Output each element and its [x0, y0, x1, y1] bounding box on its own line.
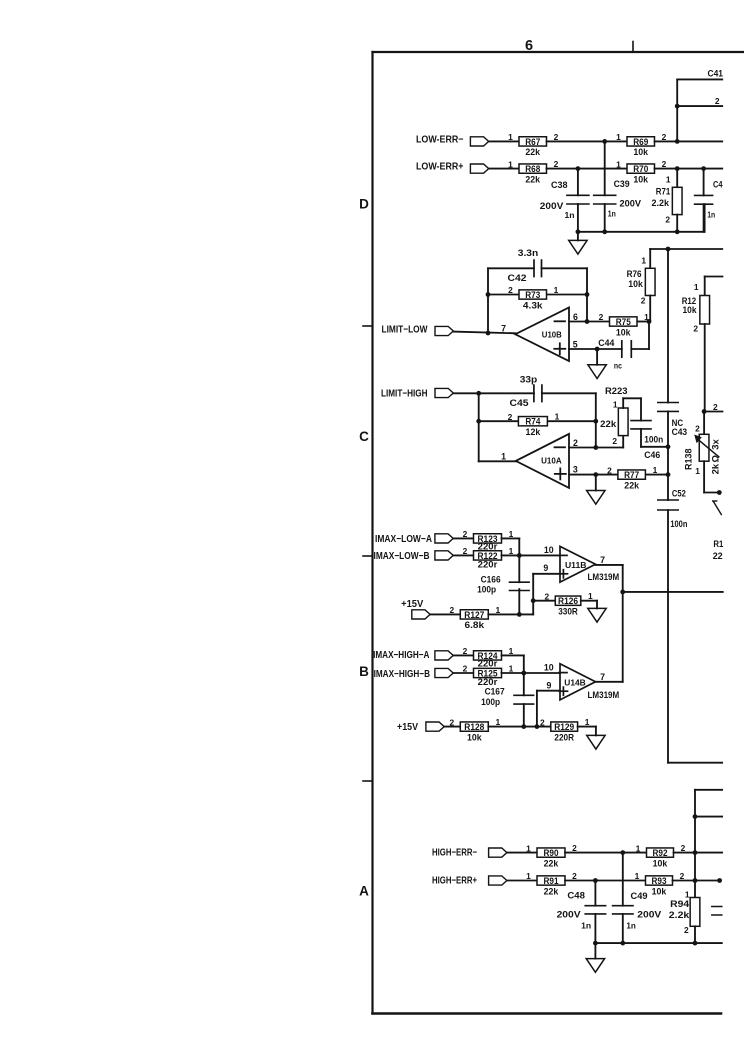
resistor R91 [526, 871, 577, 896]
wire pin2 row to R223 [569, 447, 623, 449]
capacitor C167 [481, 673, 533, 727]
resistor R129 [540, 717, 590, 742]
node IMAX-LOW-B [374, 551, 454, 562]
wire gnd stub pin3 [595, 475, 597, 491]
svg-text:IMAX−HIGH−B: IMAX−HIGH−B [374, 669, 430, 680]
wire HIGH-ERR+ to R91 [507, 880, 537, 882]
junction R75 R76 C44 [647, 319, 652, 324]
svg-text:220r: 220r [478, 658, 498, 669]
svg-text:LOW-ERR−: LOW-ERR− [416, 134, 464, 145]
svg-text:1: 1 [509, 646, 514, 656]
wire R129 to gnd [578, 727, 596, 736]
wire +15V to R127 [430, 613, 460, 615]
trimmer R138 [684, 402, 723, 495]
svg-text:2: 2 [449, 717, 454, 727]
wire pin10 row [502, 554, 561, 556]
junction R71 bottom [675, 229, 680, 234]
wire HIGH-ERR ground bus [595, 942, 721, 944]
wire pin5 row C44 [569, 322, 649, 350]
svg-text:R94: R94 [670, 899, 689, 909]
wire R90 to R92 [565, 852, 647, 854]
svg-text:10k: 10k [628, 279, 643, 289]
wire pin10 row U14B [502, 672, 561, 674]
wire IMAX-LOW-A to R123 [453, 537, 473, 539]
node LOW-ERR+ [416, 162, 489, 174]
svg-text:2: 2 [463, 646, 468, 656]
wire R67 to R69 [547, 140, 628, 142]
svg-text:2: 2 [572, 843, 577, 853]
wire right vert C45-R74-pin2 [595, 393, 597, 447]
wire ground bus below C38-C40 [578, 204, 705, 232]
svg-text:1: 1 [616, 132, 621, 142]
svg-text:9: 9 [543, 563, 548, 573]
svg-text:100p: 100p [477, 585, 496, 595]
resistor R75 [599, 312, 650, 337]
svg-text:6: 6 [573, 312, 578, 322]
ground below R129 [587, 735, 605, 749]
wire C41 net top right [677, 79, 722, 141]
wire R123 elbow to pin10 row [502, 538, 520, 555]
svg-text:1n: 1n [707, 209, 715, 219]
svg-text:LOW-ERR+: LOW-ERR+ [416, 162, 464, 173]
svg-text:22k: 22k [600, 419, 617, 429]
svg-text:22k: 22k [525, 146, 540, 157]
junction C40 top [701, 166, 706, 171]
resistor R122 [463, 546, 514, 570]
svg-text:C39: C39 [614, 179, 630, 189]
junction feedback left out [486, 331, 491, 336]
svg-text:R138: R138 [684, 448, 694, 470]
svg-text:A: A [359, 884, 369, 899]
svg-text:200V: 200V [540, 201, 564, 211]
node +15V upper [401, 599, 430, 619]
svg-text:U11B: U11B [565, 560, 587, 570]
svg-text:2: 2 [680, 871, 685, 881]
junction C39 top [602, 139, 607, 144]
svg-text:1: 1 [508, 159, 513, 169]
svg-text:220r: 220r [478, 559, 498, 570]
svg-text:100p: 100p [481, 697, 500, 707]
svg-text:1: 1 [616, 159, 621, 169]
svg-text:1: 1 [526, 843, 531, 853]
wire pin6 row to R75 [569, 321, 649, 323]
op-amp U10A [516, 434, 569, 488]
svg-text:1: 1 [554, 285, 559, 295]
svg-text:200V: 200V [620, 199, 642, 209]
svg-text:2: 2 [540, 717, 545, 727]
svg-text:10: 10 [544, 545, 554, 555]
svg-text:IMAX−LOW−A: IMAX−LOW−A [375, 534, 432, 545]
svg-text:2: 2 [449, 605, 454, 615]
svg-text:1: 1 [641, 256, 646, 266]
zone tick C/B [363, 555, 373, 557]
svg-text:1: 1 [509, 529, 514, 539]
wire R127 to pin9 vert [488, 574, 560, 615]
wire left vert U10A [478, 393, 480, 461]
svg-text:200V: 200V [637, 909, 661, 919]
resistor R90 [526, 843, 577, 868]
node IMAX-LOW-A [375, 534, 453, 545]
svg-text:200V: 200V [557, 909, 581, 919]
svg-text:6: 6 [525, 38, 533, 54]
ground below C48 [586, 959, 604, 973]
svg-text:1: 1 [501, 452, 506, 462]
capacitor C43 [658, 403, 687, 438]
svg-text:2: 2 [544, 591, 549, 601]
ground below C44 [588, 365, 606, 379]
wire HIGH-ERR- to R90 [507, 852, 537, 854]
svg-text:22k: 22k [624, 479, 639, 490]
resistor R70 [616, 159, 667, 184]
svg-text:C43: C43 [672, 427, 688, 437]
svg-text:2: 2 [713, 402, 718, 412]
svg-text:100n: 100n [670, 519, 687, 529]
resistor R77 [607, 465, 658, 490]
svg-text:33p: 33p [520, 375, 538, 385]
wire LIMIT-LOW to U10B output [453, 332, 515, 334]
junction C48 bottom [593, 941, 598, 946]
junction R69 row / C41 branch [675, 139, 680, 144]
capacitor C38 [540, 169, 589, 232]
svg-text:LIMIT−LOW: LIMIT−LOW [382, 324, 428, 335]
svg-text:C48: C48 [567, 891, 585, 901]
svg-text:C45: C45 [510, 398, 529, 408]
wire pin9 vert U14B [537, 691, 560, 727]
resistor R124 [463, 646, 514, 669]
svg-text:2: 2 [695, 424, 700, 434]
wire R128 to R129 row [488, 726, 551, 728]
svg-text:C52: C52 [672, 489, 686, 499]
junction C167 bottom [521, 724, 526, 729]
junction gnd pin5 [595, 347, 600, 352]
junction pin9 vert U14B [535, 724, 540, 729]
svg-text:2: 2 [681, 843, 686, 853]
svg-text:22: 22 [713, 551, 723, 561]
zone tick D/C [363, 325, 373, 327]
svg-text:HIGH−ERR−: HIGH−ERR− [432, 847, 477, 858]
junction C41 branch [675, 104, 680, 109]
comparator U11B [559, 546, 596, 582]
svg-text:2: 2 [599, 312, 604, 322]
svg-text:2: 2 [665, 215, 670, 225]
svg-text:10k: 10k [653, 857, 668, 868]
svg-text:2.2k: 2.2k [652, 198, 670, 208]
svg-text:1: 1 [653, 465, 658, 475]
junction pin2 vert [593, 445, 598, 450]
svg-text:HIGH−ERR+: HIGH−ERR+ [432, 876, 477, 887]
svg-text:2: 2 [662, 159, 667, 169]
svg-text:nc: nc [614, 361, 622, 371]
svg-text:1n: 1n [565, 210, 575, 220]
svg-text:1: 1 [666, 175, 671, 185]
capacitor C46 [631, 398, 668, 460]
op-amp U10B [515, 308, 569, 362]
svg-text:C4: C4 [713, 179, 723, 189]
svg-text:1: 1 [495, 717, 500, 727]
node +15V lower [397, 722, 444, 733]
svg-text:2k: 2k [710, 463, 720, 475]
junction feedback left R73 [486, 292, 491, 297]
capacitor C49 [613, 853, 662, 944]
junction C39 bottom [602, 229, 607, 234]
svg-text:6.8k: 6.8k [465, 619, 485, 630]
svg-text:12k: 12k [526, 426, 541, 437]
junction C46 bus [666, 444, 671, 449]
svg-text:2: 2 [572, 871, 577, 881]
svg-text:10k: 10k [616, 326, 631, 337]
wire R91 to R93 [565, 880, 646, 882]
svg-text:100n: 100n [644, 435, 663, 445]
capacitor C45 [510, 385, 542, 408]
svg-text:2: 2 [463, 664, 468, 674]
svg-text:LIMIT−HIGH: LIMIT−HIGH [381, 388, 428, 399]
svg-text:U10B: U10B [542, 330, 562, 340]
svg-text:1: 1 [555, 412, 560, 422]
wire R124 elbow [502, 655, 524, 673]
svg-text:2: 2 [463, 529, 468, 539]
svg-text:22k: 22k [544, 857, 559, 868]
svg-text:1n: 1n [626, 920, 636, 930]
junction C38 top [576, 166, 581, 171]
svg-text:1: 1 [526, 871, 531, 881]
svg-text:22k: 22k [525, 173, 540, 184]
ground below R126 [588, 608, 606, 622]
wire U11B output [596, 565, 623, 682]
junction output branch [620, 590, 625, 595]
svg-text:R76: R76 [627, 269, 642, 279]
junction pin10 U14B [521, 671, 526, 676]
svg-text:3x: 3x [710, 439, 720, 450]
svg-text:1: 1 [509, 663, 514, 673]
svg-text:U10A: U10A [541, 456, 562, 466]
svg-text:2: 2 [612, 436, 617, 446]
capacitor C52 [658, 489, 688, 529]
junction R94 bottom [693, 941, 698, 946]
node HIGH-ERR- [432, 847, 507, 858]
svg-text:1: 1 [685, 889, 690, 899]
svg-text:330R: 330R [558, 606, 578, 617]
svg-text:C46: C46 [644, 450, 660, 460]
resistor R12 [682, 277, 723, 412]
resistor R123 [463, 529, 514, 552]
svg-text:Ω: Ω [710, 455, 720, 463]
node HIGH-ERR+ [432, 876, 507, 887]
svg-text:U14B: U14B [564, 677, 586, 687]
junction R92 rail [693, 850, 698, 855]
junction C48 top [593, 878, 598, 883]
resistor R69 [616, 132, 667, 157]
capacitor C42 [508, 260, 542, 283]
junction gnd stub [576, 229, 581, 234]
svg-text:4.3k: 4.3k [523, 299, 543, 310]
svg-text:C49: C49 [631, 891, 648, 901]
wire gnd stub HIGH-ERR [594, 943, 596, 959]
junction right vert R74 [593, 419, 598, 424]
svg-text:220R: 220R [554, 731, 574, 742]
svg-text:1: 1 [695, 466, 700, 476]
junction feedback right R73 [585, 292, 590, 297]
wire IMAX-HIGH-B to R125 [453, 672, 473, 674]
svg-text:2: 2 [508, 285, 513, 295]
svg-text:C44: C44 [598, 338, 614, 348]
capacitor C50 partial at edge [712, 907, 722, 916]
svg-text:D: D [359, 197, 369, 212]
junction feedback right pin6 [585, 319, 590, 324]
ground below C38 [569, 240, 587, 254]
junction R93 rail R94 [693, 878, 698, 883]
junction C49 top [620, 850, 625, 855]
node LIMIT-LOW [382, 324, 454, 335]
svg-text:10k: 10k [633, 146, 648, 157]
svg-text:2: 2 [662, 132, 667, 142]
svg-text:2: 2 [715, 96, 720, 106]
wire U14B output [596, 681, 623, 683]
svg-text:3.3n: 3.3n [518, 248, 539, 258]
svg-text:2: 2 [508, 412, 513, 422]
resistor R125 [463, 663, 514, 687]
svg-text:B: B [359, 664, 369, 679]
wire gnd stub pin5 [596, 349, 598, 365]
svg-text:9: 9 [547, 680, 552, 690]
zone tick B/A [363, 780, 373, 782]
wire R76 top rail [650, 248, 722, 250]
wire +15V to R128 [444, 726, 460, 728]
svg-text:C: C [359, 429, 369, 444]
resistor R76 [627, 249, 655, 322]
svg-text:C167: C167 [485, 686, 505, 696]
resistor R128 [449, 717, 500, 742]
junction tag row left vert [476, 391, 481, 396]
junction R74 left [476, 419, 481, 424]
wire R93 to right [673, 880, 720, 882]
svg-text:22k: 22k [544, 885, 559, 896]
svg-text:+15V: +15V [401, 599, 424, 610]
wire R74 row [479, 420, 596, 422]
junction bus top [666, 247, 671, 252]
capacitor C44 [598, 338, 631, 370]
svg-text:R223: R223 [605, 386, 628, 396]
svg-text:R71: R71 [656, 187, 671, 197]
wire R68 to R70 [547, 168, 628, 170]
svg-text:IMAX−LOW−B: IMAX−LOW−B [374, 551, 430, 562]
svg-text:2: 2 [684, 925, 689, 935]
svg-text:10: 10 [544, 662, 554, 672]
svg-text:R1: R1 [713, 539, 723, 549]
resistor R68 [508, 159, 559, 184]
svg-text:10k: 10k [652, 885, 667, 896]
junction pin10 [517, 553, 522, 558]
svg-text:2.2k: 2.2k [669, 910, 691, 920]
junction pin3 gnd [593, 472, 598, 477]
svg-text:C41: C41 [708, 68, 724, 78]
capacitor C166 [477, 555, 529, 614]
svg-text:1n: 1n [581, 920, 591, 930]
wire R69 to right edge [655, 140, 723, 142]
wire R126 row [533, 600, 555, 602]
junction C166 bottom [517, 612, 522, 617]
svg-text:+15V: +15V [397, 722, 418, 733]
svg-text:C38: C38 [551, 180, 568, 190]
svg-text:5: 5 [573, 339, 578, 349]
svg-text:1: 1 [588, 591, 593, 601]
junction R126 branch [531, 598, 536, 603]
svg-text:7: 7 [600, 672, 605, 682]
junction R93 row end [717, 878, 722, 883]
wire C42 row [488, 268, 587, 333]
capacitor C39 [594, 141, 641, 231]
border tick top [632, 42, 634, 53]
junction R77 bus [666, 472, 671, 477]
svg-text:1: 1 [636, 843, 641, 853]
svg-text:LM319M: LM319M [588, 572, 620, 582]
wire output to right [623, 591, 723, 593]
junction C49 bottom [620, 941, 625, 946]
resistor R92 [636, 843, 686, 868]
resistor R74 [508, 412, 560, 437]
wire IMAX-HIGH-A to R124 [453, 654, 473, 656]
wire R92 to right [674, 852, 723, 854]
svg-text:1: 1 [613, 399, 618, 409]
svg-text:10k: 10k [633, 173, 648, 184]
resistor R93 [635, 871, 685, 896]
wire U10A output [479, 460, 516, 462]
svg-text:7: 7 [501, 324, 506, 334]
svg-text:1: 1 [585, 717, 590, 727]
capacitor C40 [695, 169, 723, 232]
wire R73 row [488, 294, 587, 296]
svg-text:1n: 1n [608, 208, 616, 218]
svg-text:1: 1 [509, 546, 514, 556]
svg-text:2: 2 [573, 438, 578, 448]
junction rail 2 [693, 814, 698, 819]
partial symbol cut at edge below R138 [713, 501, 722, 515]
resistor R94 [669, 889, 700, 943]
resistor R73 [508, 285, 559, 310]
svg-text:1: 1 [495, 605, 500, 615]
capacitor C48 [557, 881, 606, 944]
node LOW-ERR- [416, 134, 489, 146]
svg-text:C166: C166 [481, 575, 501, 585]
wire LIMIT-HIGH row to C45 [453, 392, 596, 394]
svg-text:2: 2 [693, 323, 698, 333]
node IMAX-HIGH-B [374, 668, 454, 680]
svg-text:LM319M: LM319M [588, 690, 620, 700]
svg-text:2: 2 [463, 546, 468, 556]
svg-text:1: 1 [508, 132, 513, 142]
node IMAX-HIGH-A [373, 650, 453, 661]
junction R71 top [675, 166, 680, 171]
wire R126 to gnd [581, 601, 597, 609]
ground below U10A pin3 [587, 491, 605, 505]
resistor R223 [600, 386, 641, 448]
svg-text:IMAX−HIGH−A: IMAX−HIGH−A [373, 650, 429, 661]
svg-text:2: 2 [607, 465, 612, 475]
svg-text:1: 1 [635, 871, 640, 881]
svg-text:3: 3 [573, 465, 578, 475]
resistor R126 [544, 591, 593, 616]
resistor R71 [652, 169, 683, 232]
wire R70 to right edge [655, 168, 723, 170]
wire LOW-ERR- to R67 [489, 140, 519, 142]
svg-text:2: 2 [554, 159, 559, 169]
wire gnd stub [577, 232, 579, 241]
resistor R127 [449, 605, 500, 630]
svg-text:1: 1 [694, 282, 699, 292]
svg-text:2: 2 [554, 132, 559, 142]
sheet border frame [373, 52, 744, 1014]
wire right rails above HIGH-ERR [695, 790, 722, 898]
wire IMAX-LOW-B to R122 [453, 554, 473, 556]
